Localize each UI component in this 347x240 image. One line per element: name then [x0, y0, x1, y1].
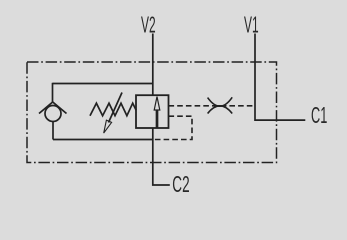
wire: top rail from check-valve branch to V2 line [53, 83, 154, 85]
wire: C2 line below valve, elbow and tick [153, 128, 170, 185]
spring (adjustable) zigzag [90, 103, 136, 116]
valve assembly boundary (dash-dot enclosure) [27, 62, 277, 163]
pilot line (dashed) from valve to V1/C1 node [169, 105, 256, 107]
wire: left branch down to check valve [52, 83, 54, 103]
svg-text:C2: C2 [172, 171, 189, 197]
flow arrow shaft inside valve body [156, 110, 159, 128]
pilot feedback loop (dashed) from valve to C2 node [153, 116, 192, 139]
svg-text:C1: C1 [311, 102, 327, 128]
pilot orifice (restriction arcs) [208, 97, 233, 106]
svg-text:V2: V2 [141, 12, 156, 38]
wire: port V2 vertical line [152, 34, 154, 96]
wire: bottom rail to C2 node [53, 139, 153, 141]
adjustment arrowhead (open) [104, 120, 112, 133]
counterbalance valve body U1 (square) [136, 95, 169, 128]
wire: port V1 vertical line + elbow to C1 [255, 34, 305, 121]
wire: below check valve ball [52, 122, 54, 140]
pilot line dash segment through orifice center [214, 105, 227, 107]
check valve ball [45, 106, 61, 122]
check valve seat (inverted V) [39, 102, 67, 114]
svg-text:V1: V1 [244, 12, 259, 38]
adjustment arrow shaft through spring [109, 93, 123, 123]
flow arrow head inside valve body (open triangle) [154, 97, 160, 110]
